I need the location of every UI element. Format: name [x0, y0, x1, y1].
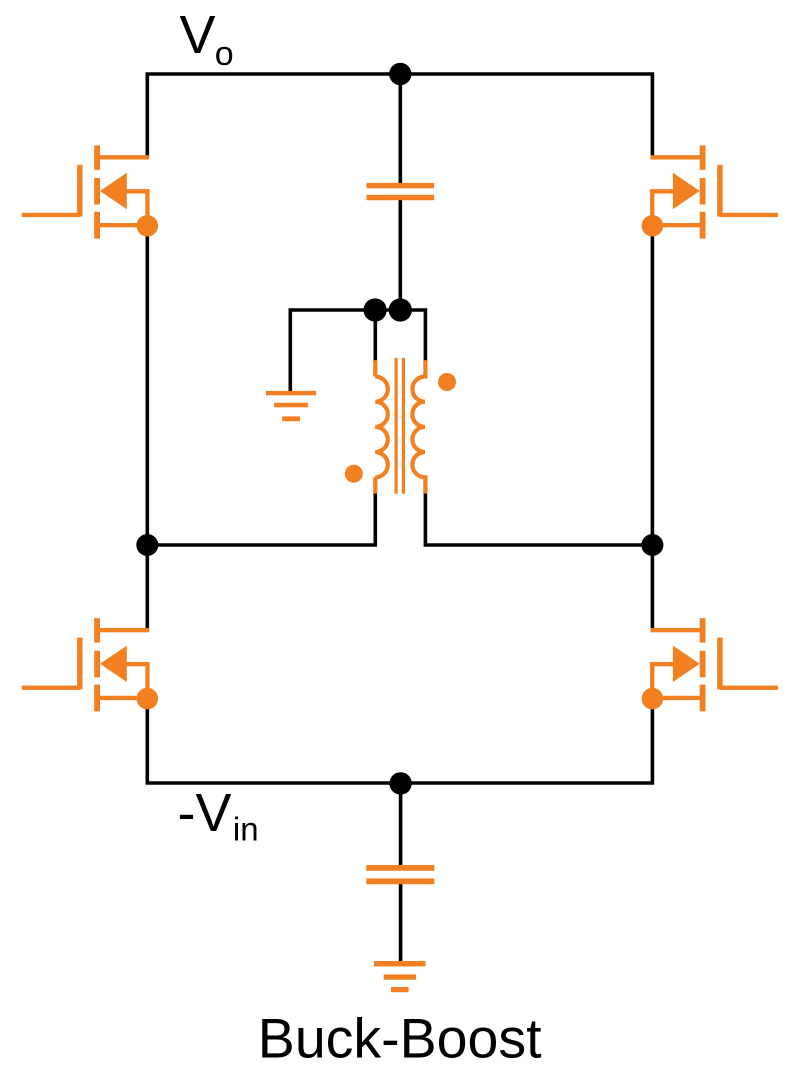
node junction dot transformer left [364, 298, 387, 321]
svg-text:o: o [215, 35, 234, 73]
transistor Q4 bottom-right MOSFET [642, 618, 778, 711]
node junction dot mid rail left [136, 534, 158, 556]
capacitor top plate 1 [367, 183, 435, 188]
node junction dot transformer right [389, 298, 412, 321]
transistor Q1 top-left MOSFET [22, 145, 158, 238]
node junction dot top rail [389, 63, 411, 85]
transformer phase dot secondary [438, 373, 456, 391]
svg-text:V: V [180, 5, 216, 65]
svg-text:in: in [233, 810, 259, 847]
wire mid rail left [147, 494, 375, 546]
capacitor bottom plate 1 [366, 865, 434, 871]
transistor Q3 bottom-left MOSFET [22, 618, 158, 711]
wire bottom rail [147, 708, 652, 783]
svg-text:-V: -V [178, 783, 232, 843]
wire top capacitor branch lower [398, 200, 402, 310]
capacitor bottom plate 2 [366, 878, 434, 884]
wire top capacitor branch upper [398, 74, 402, 183]
wire bottom capacitor branch upper [399, 783, 403, 865]
wire top rail [147, 74, 652, 158]
capacitor top plate 2 [367, 195, 435, 200]
wire left rail middle [146, 235, 150, 631]
svg-text:Buck-Boost: Buck-Boost [258, 1008, 542, 1070]
transformer phase dot primary [345, 465, 363, 483]
transformer secondary winding [412, 360, 425, 493]
node junction dot bottom rail [389, 772, 411, 794]
ground symbol middle [266, 391, 316, 421]
node junction dot mid rail right [641, 534, 663, 556]
transformer primary winding [375, 360, 388, 493]
wire bottom capacitor branch lower [399, 884, 403, 961]
transformer core [396, 358, 403, 494]
wire mid rail right [425, 494, 652, 546]
wire right rail middle [651, 235, 655, 631]
ground symbol bottom [374, 961, 426, 992]
transistor Q2 top-right MOSFET [642, 145, 778, 238]
wire left transformer top lead [373, 310, 377, 360]
wire node rail with ground branch and right transformer lead [290, 310, 425, 391]
